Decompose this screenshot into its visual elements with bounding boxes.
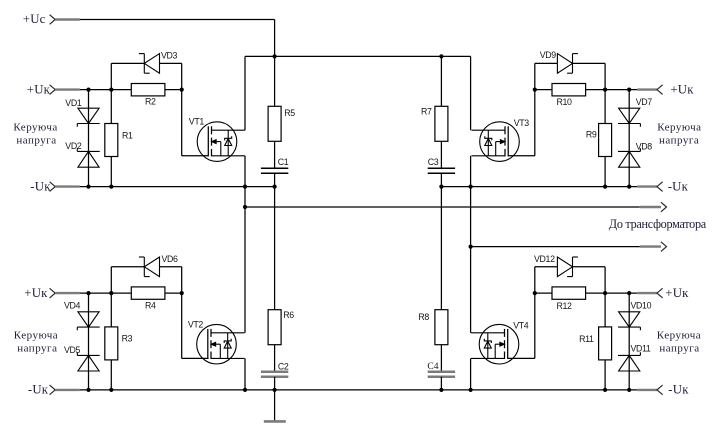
resistor R11 xyxy=(599,327,612,360)
wire zener chain VD7-VD8 xyxy=(628,90,630,187)
wire VD3 right segment xyxy=(160,62,182,64)
svg-text:Керуюча: Керуюча xyxy=(657,122,701,134)
wire rail C to VT4 drain xyxy=(470,247,472,333)
svg-text:R10: R10 xyxy=(557,97,573,107)
svg-text:Керуюча: Керуюча xyxy=(657,329,701,341)
svg-text:C1: C1 xyxy=(278,157,289,167)
junction R11 / +Uk rail xyxy=(603,291,607,295)
svg-text:напруга: напруга xyxy=(16,135,56,147)
svg-text:напруга: напруга xyxy=(17,342,57,354)
svg-text:Керуюча: Керуюча xyxy=(13,122,57,134)
wire R2 to gate node xyxy=(165,89,182,91)
svg-text:R12: R12 xyxy=(557,301,573,311)
junction R3 / bottom rail xyxy=(109,388,113,392)
wire R7 top lead xyxy=(440,56,442,106)
svg-text:R2: R2 xyxy=(145,97,156,107)
wire R9 branch vertical xyxy=(604,63,606,186)
svg-text:До трансформатора: До трансформатора xyxy=(609,217,707,231)
transistor VT1 xyxy=(197,122,245,162)
connector stub +Uk lower-right xyxy=(637,292,657,294)
svg-text:VT1: VT1 xyxy=(189,116,205,126)
junction C4 / bottom rail xyxy=(439,388,443,392)
junction VT4 source / bottom rail xyxy=(469,388,473,392)
svg-text:VD11: VD11 xyxy=(631,344,651,354)
zener diode VD5 xyxy=(77,352,99,371)
wire +Uk rail upper-left xyxy=(80,89,132,91)
resistor R6 xyxy=(268,310,281,345)
svg-text:R5: R5 xyxy=(284,108,295,118)
wire gate lead VT4 xyxy=(507,357,534,359)
resistor R9 xyxy=(599,124,612,157)
connector stub +Uk lower-left xyxy=(55,292,80,294)
svg-text:VD12: VD12 xyxy=(534,254,555,264)
junction R9 / -Uk rail xyxy=(603,185,607,189)
wire VT1 drain to top rail xyxy=(244,56,246,130)
svg-text:+Uс: +Uс xyxy=(23,12,46,26)
wire gate vertical VT4 xyxy=(534,267,536,359)
wire R3 branch vertical xyxy=(110,267,112,390)
svg-text:VD4: VD4 xyxy=(64,301,81,311)
svg-text:Керуюча: Керуюча xyxy=(14,329,58,341)
wire VT4 source to bottom rail xyxy=(470,358,472,390)
arrow stub rail C xyxy=(640,245,661,247)
wire top supply rail xyxy=(245,55,471,57)
junction C3 / rail A right xyxy=(439,185,443,189)
svg-text:VD1: VD1 xyxy=(65,98,82,108)
zener diode VD1 xyxy=(77,108,99,127)
wire C4 bottom lead xyxy=(440,377,442,390)
svg-text:+Uк: +Uк xyxy=(670,82,694,96)
junction VD1 / +Uk rail xyxy=(86,88,90,92)
wire rail A to R8 xyxy=(440,187,442,310)
wire VT3 drain to top rail xyxy=(470,56,472,130)
zener diode VD8 xyxy=(618,148,640,167)
wire gate vertical VT2 xyxy=(181,267,183,359)
junction R4 / gate branch xyxy=(180,291,184,295)
junction R9 / +Uk rail xyxy=(603,88,607,92)
svg-text:+Uк: +Uк xyxy=(27,82,51,96)
resistor R2 xyxy=(131,84,165,96)
connector chevron +Uk upper-right xyxy=(657,85,663,95)
resistor R10 xyxy=(552,84,586,96)
zener diode VD11 xyxy=(618,352,640,371)
zener diode VD12 xyxy=(557,257,578,277)
svg-text:-Uк: -Uк xyxy=(30,179,51,193)
svg-text:R7: R7 xyxy=(421,107,432,117)
junction VT1 source / rail A xyxy=(243,185,247,189)
junction midpoint right / rail C xyxy=(469,245,473,249)
wire VD12 right segment xyxy=(573,266,606,268)
wire VD6 right segment xyxy=(160,266,182,268)
junction midpoint / rail B xyxy=(243,205,247,209)
transistor VT4 xyxy=(471,324,519,364)
connector chevron +Uk lower-left xyxy=(50,288,56,298)
wire output rail B to transformer xyxy=(245,206,640,208)
resistor R4 xyxy=(131,287,165,299)
svg-text:R8: R8 xyxy=(418,312,429,322)
svg-text:-Uк: -Uк xyxy=(668,383,689,397)
wire +Uc vertical drop xyxy=(274,20,276,57)
svg-text:VD7: VD7 xyxy=(636,97,653,107)
wire VT2 source to bottom rail xyxy=(244,358,246,390)
wire VD6 left segment xyxy=(111,266,144,268)
junction VD5 / bottom rail xyxy=(86,388,90,392)
wire R4 to gate node xyxy=(165,292,182,294)
wire R7 to C3 xyxy=(440,141,442,168)
svg-text:R3: R3 xyxy=(122,334,133,344)
connector chevron -Uk upper-left xyxy=(50,182,56,192)
arrowhead rail C xyxy=(661,242,667,252)
wire R8 to C4 xyxy=(440,345,442,372)
wire VD9 right segment xyxy=(573,62,606,64)
svg-text:R1: R1 xyxy=(122,131,133,141)
connector stub +Uc xyxy=(55,18,80,20)
wire +Uk rail lower-left xyxy=(80,292,132,294)
junction VT2 source / bottom rail xyxy=(243,388,247,392)
connector chevron +Uc xyxy=(50,15,56,25)
svg-text:VT2: VT2 xyxy=(188,319,204,329)
resistor R5 xyxy=(268,106,281,141)
connector chevron +Uk upper-left xyxy=(50,85,56,95)
wire zener chain VD1-VD2 xyxy=(88,90,90,187)
svg-text:+Uк: +Uк xyxy=(665,286,689,300)
arrow stub rail B xyxy=(640,206,661,208)
wire R6 to C2 xyxy=(274,345,276,372)
wire R5 to C1 xyxy=(274,141,276,168)
wire gate lead VT3 xyxy=(508,155,535,157)
wire R11 branch vertical xyxy=(604,267,606,390)
wire gate lead VT2 xyxy=(182,357,209,359)
svg-text:напруга: напруга xyxy=(659,135,699,147)
wire C1 bottom lead xyxy=(274,173,276,186)
svg-text:VT4: VT4 xyxy=(513,320,529,330)
svg-text:VD6: VD6 xyxy=(162,254,179,264)
connector chevron -Uk lower-left xyxy=(50,385,56,395)
wire C3 bottom lead xyxy=(440,173,442,186)
transistor VT3 xyxy=(472,122,520,162)
wire +Uc horizontal xyxy=(80,19,275,21)
wire VT1 source to midpoint xyxy=(244,156,246,207)
wire rail A to R6 xyxy=(274,187,276,310)
junction C2 / bottom rail xyxy=(273,388,277,392)
svg-text:VD3: VD3 xyxy=(161,51,178,61)
wire bottom rail xyxy=(80,389,637,391)
resistor R7 xyxy=(435,106,448,141)
junction R10 / gate branch right xyxy=(533,88,537,92)
wire zener chain VD4-VD5 xyxy=(88,293,90,390)
svg-text:напруга: напруга xyxy=(659,342,699,354)
connector stub -Uk upper-right xyxy=(637,185,657,187)
svg-text:+Uк: +Uк xyxy=(24,286,48,300)
wire +Uk rail lower-right xyxy=(586,292,638,294)
ground xyxy=(264,390,286,422)
svg-text:VD5: VD5 xyxy=(64,345,81,355)
svg-text:-Uк: -Uк xyxy=(668,179,689,193)
svg-text:C2: C2 xyxy=(278,362,289,372)
junction VD10 / +Uk rail xyxy=(627,291,631,295)
zener diode VD9 xyxy=(557,54,578,74)
wire R1 branch vertical xyxy=(110,63,112,186)
wire VD12 left segment xyxy=(535,266,558,268)
wire VD9 left segment xyxy=(535,62,558,64)
svg-text:R4: R4 xyxy=(145,301,156,311)
zener diode VD2 xyxy=(77,148,99,167)
wire VT2 drain to rail B xyxy=(244,207,246,333)
svg-text:VD2: VD2 xyxy=(65,141,82,151)
transistor VT2 xyxy=(197,324,245,364)
svg-text:VD9: VD9 xyxy=(540,50,557,60)
connector chevron +Uk lower-right xyxy=(657,288,663,298)
wire VD3 left segment xyxy=(111,62,144,64)
svg-text:R9: R9 xyxy=(586,130,597,140)
wire gate node to R12 xyxy=(535,292,552,294)
connector chevron -Uk upper-right xyxy=(657,182,663,192)
junction VD11 / bottom rail xyxy=(627,388,631,392)
capacitor C4 xyxy=(428,372,455,377)
wire gate lead VT1 xyxy=(182,155,209,157)
capacitor C2 xyxy=(261,372,288,377)
wire +Uk rail upper-right xyxy=(586,89,638,91)
connector stub +Uk upper-right xyxy=(637,88,657,90)
zener diode VD10 xyxy=(618,312,640,331)
wire gate vertical VT1 xyxy=(181,63,183,155)
junction R3 / +Uk rail xyxy=(109,291,113,295)
zener diode VD3 xyxy=(139,54,160,74)
junction C1 / rail A xyxy=(273,185,277,189)
junction VD8 / -Uk rail xyxy=(627,185,631,189)
connector chevron -Uk lower-right xyxy=(657,385,663,395)
connector stub -Uk lower-left xyxy=(55,389,80,391)
junction VT3 source / rail A right xyxy=(469,185,473,189)
capacitor C1 xyxy=(261,168,288,173)
zener diode VD7 xyxy=(618,108,640,127)
wire -Uk rail A upper-right xyxy=(441,186,637,188)
junction R2 / gate branch xyxy=(180,88,184,92)
arrowhead rail B xyxy=(661,202,667,212)
svg-text:C3: C3 xyxy=(428,157,439,167)
zener diode VD4 xyxy=(77,312,99,331)
svg-text:R11: R11 xyxy=(579,334,594,344)
connector stub -Uk lower-right xyxy=(637,389,657,391)
connector stub -Uk upper-left xyxy=(55,185,80,187)
junction R1 / -Uk rail xyxy=(109,185,113,189)
svg-text:-Uк: -Uк xyxy=(28,383,49,397)
junction R11 / bottom rail xyxy=(603,388,607,392)
junction VD7 / +Uk rail xyxy=(627,88,631,92)
wire gate vertical VT3 xyxy=(534,63,536,155)
junction R12 / gate branch right xyxy=(533,291,537,295)
wire -Uk rail A upper-left xyxy=(80,186,275,188)
junction top rail / R7 branch xyxy=(439,54,443,58)
svg-text:VD8: VD8 xyxy=(636,142,653,152)
wire R5 top lead xyxy=(274,56,276,106)
svg-text:VD10: VD10 xyxy=(631,301,652,311)
resistor R1 xyxy=(105,124,118,157)
capacitor C3 xyxy=(428,168,455,173)
wire output rail C to transformer xyxy=(471,246,640,248)
junction R1 / +Uk rail xyxy=(109,88,113,92)
wire gate node to R10 xyxy=(535,89,552,91)
junction VD2 / -Uk rail xyxy=(86,185,90,189)
svg-text:VT3: VT3 xyxy=(514,118,530,128)
connector stub +Uk upper-left xyxy=(55,88,80,90)
wire VT3 source through rail A to rail C xyxy=(470,156,472,247)
zener diode VD6 xyxy=(139,257,160,277)
resistor R12 xyxy=(552,287,586,299)
wire zener chain VD10-VD11 xyxy=(628,293,630,390)
junction top rail / R5 branch xyxy=(273,54,277,58)
junction VD4 / +Uk rail xyxy=(86,291,90,295)
wire C2 bottom lead xyxy=(274,377,276,390)
svg-text:R6: R6 xyxy=(283,310,294,320)
resistor R3 xyxy=(105,327,118,360)
resistor R8 xyxy=(435,310,448,345)
